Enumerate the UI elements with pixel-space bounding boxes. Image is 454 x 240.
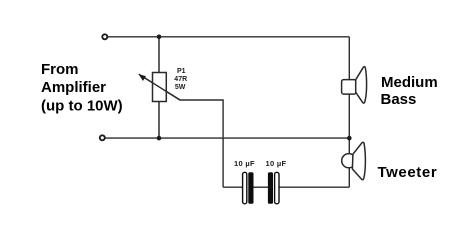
wire between capacitors [254,186,269,188]
wire bottom rail [105,137,349,139]
svg-text:Amplifier: Amplifier [41,79,106,96]
wire wiper run: diagonal from pot, horizontal, drop to capacitor loop [139,74,223,187]
terminal input top [102,34,107,39]
svg-text:Bass: Bass [381,91,417,108]
wire capacitor loop bottom [223,186,243,188]
wire P1 bottom lead [158,101,160,138]
svg-text:5W: 5W [175,84,186,91]
svg-text:47R: 47R [174,76,187,83]
terminal input bottom [100,135,105,140]
node junction top of P1 [157,35,162,40]
svg-text:Medium: Medium [381,74,438,91]
node junction speakers [347,136,352,141]
wire right branch [348,37,350,187]
potentiometer P1 arrow line [143,77,180,100]
speaker tweeter horn [352,142,365,180]
capacitor C2 plate negative (hollow) [275,172,279,204]
speaker tweeter dome [342,154,356,168]
svg-text:10 µF: 10 µF [266,159,287,168]
speaker medium bass horn [356,67,367,103]
wire P1 top lead [158,37,160,73]
capacitor C1 plate positive (solid) [248,172,253,204]
potentiometer P1 arrowhead [139,74,147,81]
capacitor C2 plate positive (solid) [268,172,273,204]
speaker medium bass body [342,80,356,95]
svg-text:(up to 10W): (up to 10W) [41,98,123,115]
node junction bottom of P1 [157,136,162,141]
capacitor C1 plate negative (hollow) [243,172,247,204]
svg-text:P1: P1 [177,68,186,75]
potentiometer P1 body [153,73,167,102]
svg-text:10 µF: 10 µF [234,159,255,168]
svg-text:From: From [41,61,79,78]
svg-text:Tweeter: Tweeter [378,164,438,181]
wire from C2 to tweeter [279,186,349,188]
wire top rail [108,36,349,38]
